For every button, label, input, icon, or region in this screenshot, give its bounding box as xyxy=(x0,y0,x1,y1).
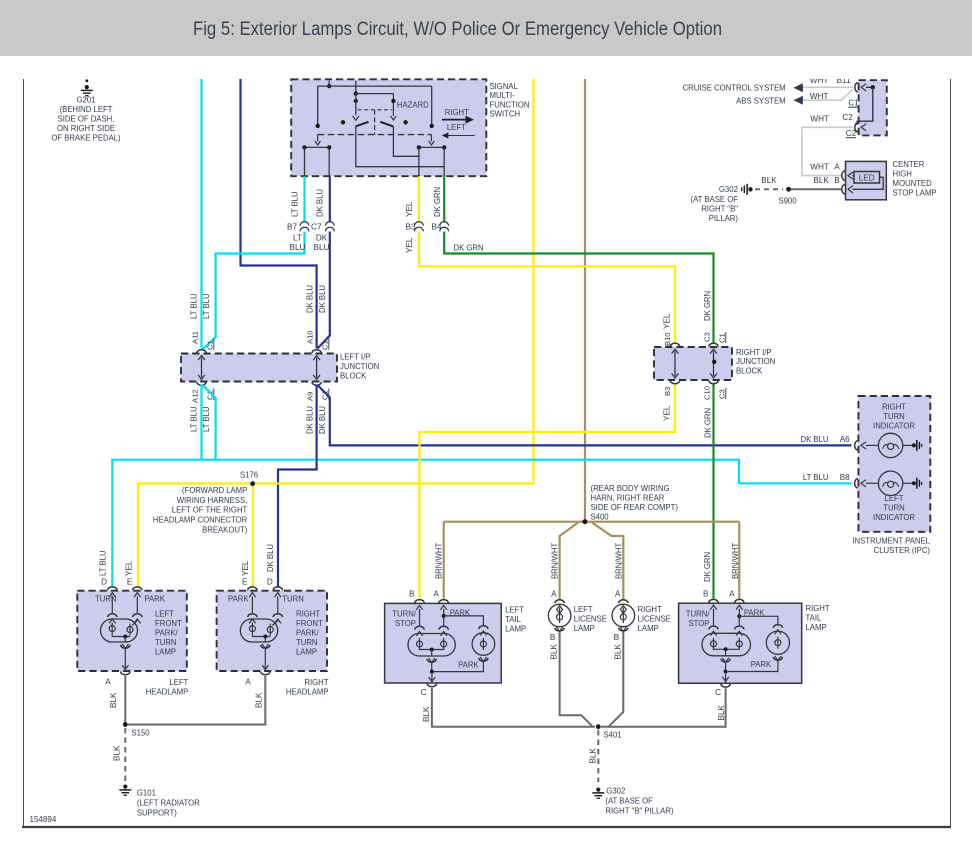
label LT BLU B8 xyxy=(803,473,850,482)
right front bulb bottom terminal xyxy=(261,644,270,665)
label DK GRN above C3 xyxy=(703,291,712,321)
wire YEL park feed from top xyxy=(532,79,534,484)
wire LT BLU A12 straight drop xyxy=(200,385,202,460)
junction block path C3-C10 xyxy=(710,349,717,378)
top right box internal wire xyxy=(857,85,875,125)
label forward lamp harness xyxy=(153,486,248,534)
pin E right front lamp xyxy=(248,587,257,597)
svg-text:JUNCTION: JUNCTION xyxy=(736,357,775,366)
wire DK GRN switch output xyxy=(444,176,713,342)
svg-text:WHT: WHT xyxy=(810,92,829,101)
pin A right tail xyxy=(735,599,744,609)
switch output stub B4 xyxy=(443,147,445,176)
label BRN-WHT right license xyxy=(615,543,624,579)
svg-text:A: A xyxy=(729,590,735,599)
right front park/turn lamp box xyxy=(217,591,327,671)
label A11 pin xyxy=(190,331,199,344)
pin B right tail xyxy=(709,599,718,609)
label A left front xyxy=(105,678,111,687)
svg-text:TURN: TURN xyxy=(883,504,905,513)
svg-text:C7: C7 xyxy=(311,223,322,232)
wire WHT C2 to stop lamp xyxy=(802,127,853,175)
svg-text:LAMP: LAMP xyxy=(505,625,527,634)
label PARK right tail top xyxy=(744,609,765,618)
svg-text:C2: C2 xyxy=(842,113,853,122)
svg-text:A9: A9 xyxy=(305,392,314,401)
switch hazard feed right xyxy=(391,94,397,120)
switch linkage row dashed xyxy=(318,134,432,136)
right tail park bulb xyxy=(728,625,790,672)
switch output arrow left xyxy=(315,135,321,145)
right tail bulb bottom terminal xyxy=(721,658,730,677)
svg-text:BREAKOUT): BREAKOUT) xyxy=(202,525,247,534)
svg-text:YEL: YEL xyxy=(663,405,672,421)
svg-text:RIGHT "B": RIGHT "B" xyxy=(701,205,738,214)
label DK BLU below C7 xyxy=(314,234,330,253)
svg-text:BLOCK: BLOCK xyxy=(736,367,763,376)
svg-text:B: B xyxy=(834,176,840,185)
label CENTER HIGH MOUNTED STOP LAMP xyxy=(893,160,938,198)
label YEL at left front lamp xyxy=(125,560,134,576)
label C right tail xyxy=(715,688,721,697)
svg-text:LT: LT xyxy=(293,234,302,243)
svg-text:A12: A12 xyxy=(190,389,199,403)
pin A12 xyxy=(197,382,206,385)
svg-text:B3: B3 xyxy=(405,223,415,232)
label DK BLU at right front lamp xyxy=(266,544,275,572)
svg-text:B8: B8 xyxy=(840,473,850,482)
svg-text:YEL: YEL xyxy=(405,237,414,253)
svg-text:A6: A6 xyxy=(840,435,850,444)
svg-text:FRONT: FRONT xyxy=(296,619,323,628)
svg-text:LEFT: LEFT xyxy=(155,610,174,619)
wire BLK left front lamp xyxy=(124,676,126,725)
pin C10 xyxy=(709,380,718,383)
label PARK left tail bottom xyxy=(458,661,479,670)
svg-text:LICENSE: LICENSE xyxy=(638,615,672,624)
left front park/turn lamp box xyxy=(77,591,187,671)
svg-text:A: A xyxy=(615,590,621,599)
label DK BLU pair above A10 xyxy=(306,285,328,313)
svg-text:WHT: WHT xyxy=(810,163,829,172)
pin C3 xyxy=(709,343,718,346)
wire DK BLU switch output xyxy=(318,176,330,348)
svg-text:PARK: PARK xyxy=(228,595,249,604)
svg-text:DK BLU: DK BLU xyxy=(318,406,327,434)
svg-text:A10: A10 xyxy=(305,330,314,344)
svg-text:RIGHT: RIGHT xyxy=(882,403,906,412)
pin D right front lamp xyxy=(273,587,282,597)
svg-text:TURN: TURN xyxy=(883,412,905,421)
svg-text:(AT BASE OF: (AT BASE OF xyxy=(605,797,653,806)
label C1 at A11 xyxy=(206,339,215,351)
svg-text:BLOCK: BLOCK xyxy=(340,371,367,380)
wire WHT to cruise control xyxy=(803,86,853,88)
svg-text:LT BLU: LT BLU xyxy=(202,406,211,432)
splice S150 xyxy=(123,722,150,737)
svg-text:STOP: STOP xyxy=(689,619,710,628)
svg-text:PARK: PARK xyxy=(144,595,165,604)
junction block path A11-A12 xyxy=(198,356,205,380)
wire BLK dashed to G101 xyxy=(124,728,126,783)
label PARK right front xyxy=(228,595,249,604)
label LEFT I/P JUNCTION BLOCK xyxy=(340,353,379,381)
svg-text:BLK: BLK xyxy=(813,176,829,185)
label WHT B11 clipped xyxy=(810,76,851,85)
label G302 location xyxy=(605,787,673,816)
label BLK B xyxy=(813,176,840,185)
svg-text:C1: C1 xyxy=(718,333,727,343)
splice S900 xyxy=(778,187,797,206)
svg-text:BLK: BLK xyxy=(550,643,559,659)
label ABS SYSTEM xyxy=(736,96,803,106)
svg-text:YEL: YEL xyxy=(241,560,250,576)
label BRN-WHT right tail xyxy=(731,543,740,579)
label LED xyxy=(859,174,875,183)
svg-text:SWITCH: SWITCH xyxy=(490,110,521,119)
svg-text:CRUISE CONTROL SYSTEM: CRUISE CONTROL SYSTEM xyxy=(683,84,786,93)
right front bulb xyxy=(240,597,282,643)
pin C2 xyxy=(855,123,866,132)
svg-text:LEFT: LEFT xyxy=(574,605,593,614)
label RIGHT TAIL LAMP xyxy=(806,604,830,632)
label LT BLU pair above A11 xyxy=(190,293,211,319)
label HAZARD xyxy=(397,101,429,110)
label YEL below B3 block xyxy=(663,405,672,421)
label C left tail xyxy=(421,688,427,697)
svg-text:E: E xyxy=(242,578,248,587)
svg-text:DK BLU: DK BLU xyxy=(318,285,327,313)
switch output stub C7 xyxy=(328,147,330,176)
wire LT BLU feed from top to A11 xyxy=(200,79,202,349)
connector B3 xyxy=(405,222,423,232)
label BLK at G101 xyxy=(113,745,122,761)
svg-text:LT BLU: LT BLU xyxy=(291,191,300,217)
pin D left front lamp xyxy=(108,587,117,597)
label WHT abs row xyxy=(810,92,829,101)
svg-text:SUPPORT): SUPPORT) xyxy=(137,809,177,818)
svg-text:PARK/: PARK/ xyxy=(155,629,178,638)
svg-text:(LEFT RADIATOR: (LEFT RADIATOR xyxy=(137,799,200,808)
switch moving contact left xyxy=(356,122,369,127)
label A9 pin xyxy=(305,392,314,401)
label E pin left front xyxy=(127,578,133,587)
svg-text:RIGHT: RIGHT xyxy=(445,108,469,117)
label LEFT with arrow xyxy=(442,123,475,139)
switch output bus left xyxy=(302,145,331,149)
svg-text:D: D xyxy=(101,578,107,587)
svg-text:E: E xyxy=(127,578,133,587)
svg-text:LEFT I/P: LEFT I/P xyxy=(340,353,371,362)
label LEFT LICENSE LAMP xyxy=(574,605,608,633)
svg-text:LAMP: LAMP xyxy=(296,648,318,657)
svg-text:BRN/WHT: BRN/WHT xyxy=(731,543,740,579)
svg-text:S176: S176 xyxy=(240,471,259,480)
svg-text:HARN, RIGHT REAR: HARN, RIGHT REAR xyxy=(591,494,665,503)
wire BLK right tail to S401 xyxy=(601,688,726,726)
pin A stop lamp xyxy=(842,171,854,180)
svg-text:LT BLU: LT BLU xyxy=(803,473,829,482)
junction block path B10-B3 xyxy=(672,349,679,378)
ground right turn indicator xyxy=(912,440,922,451)
svg-text:A: A xyxy=(245,678,251,687)
svg-text:PARK/: PARK/ xyxy=(296,629,319,638)
svg-text:YEL: YEL xyxy=(125,560,134,576)
svg-text:DK GRN: DK GRN xyxy=(454,244,484,253)
svg-text:(AT BASE OF: (AT BASE OF xyxy=(691,195,739,204)
svg-text:STOP: STOP xyxy=(395,619,416,628)
svg-text:B: B xyxy=(409,590,415,599)
left license lamp xyxy=(548,600,571,632)
splice S400 xyxy=(444,519,740,524)
svg-text:SIDE OF DASH,: SIDE OF DASH, xyxy=(58,115,115,124)
svg-text:TURN: TURN xyxy=(95,595,117,604)
connector C7 xyxy=(311,222,334,232)
pin A9 xyxy=(312,382,321,385)
left front bulb bottom terminal xyxy=(121,644,130,665)
svg-text:TAIL: TAIL xyxy=(505,615,521,624)
svg-text:DK BLU: DK BLU xyxy=(306,285,315,313)
svg-text:C10: C10 xyxy=(703,386,712,400)
label LT BLU above B7 xyxy=(291,191,300,217)
svg-text:DK GRN: DK GRN xyxy=(703,291,712,321)
ground G302 xyxy=(592,788,604,799)
svg-text:BLK: BLK xyxy=(254,692,263,708)
label B left license xyxy=(550,633,556,642)
label C1 at A9 xyxy=(321,389,330,401)
label YEL at right front lamp xyxy=(241,560,250,576)
svg-text:BLU: BLU xyxy=(290,243,306,252)
svg-text:WIRING HARNESS,: WIRING HARNESS, xyxy=(177,496,248,505)
switch internal top bus xyxy=(318,85,432,87)
frame border bottom xyxy=(22,826,951,828)
left tail park bulb xyxy=(434,626,495,672)
label D pin right front xyxy=(267,578,273,587)
pin A right front lamp xyxy=(261,665,270,675)
label B pin right tail xyxy=(703,590,709,599)
wire LT BLU horizontal run xyxy=(112,460,851,587)
label BLK dashed upper xyxy=(761,176,777,185)
label PARK left front xyxy=(144,595,165,604)
pin B left tail xyxy=(415,600,424,610)
svg-text:LT BLU: LT BLU xyxy=(98,550,107,576)
label LT BLU below B7 xyxy=(290,234,306,253)
svg-text:LAMP: LAMP xyxy=(806,623,828,632)
wire BRN-WHT to right tail xyxy=(738,522,740,599)
svg-text:ABS SYSTEM: ABS SYSTEM xyxy=(736,97,786,106)
label B3 pin xyxy=(663,387,672,396)
svg-text:LAMP: LAMP xyxy=(638,624,660,633)
label G302 upper location xyxy=(691,185,739,223)
label BLK at G302 xyxy=(588,747,597,763)
svg-text:LEFT: LEFT xyxy=(169,678,188,687)
switch output stub B3 xyxy=(418,147,420,176)
switch right-turn route xyxy=(393,126,419,156)
svg-text:B: B xyxy=(550,633,556,642)
frame border left xyxy=(23,79,25,827)
pin B10 xyxy=(670,343,679,346)
pin C left tail xyxy=(427,677,436,687)
svg-text:Fig 5: Exterior Lamps Circuit,: Fig 5: Exterior Lamps Circuit, W/O Polic… xyxy=(193,19,722,40)
label RIGHT TURN INDICATOR xyxy=(873,403,915,431)
svg-text:RIGHT I/P: RIGHT I/P xyxy=(736,348,772,357)
label RIGHT I/P JUNCTION BLOCK xyxy=(736,348,775,376)
center high mounted stop lamp box xyxy=(846,161,887,199)
wire DK BLU feed from top xyxy=(241,79,317,349)
svg-text:WHT: WHT xyxy=(810,115,829,124)
label LEFT HEADLAMP xyxy=(146,678,189,697)
svg-text:DK GRN: DK GRN xyxy=(704,408,713,438)
svg-text:HEADLAMP CONNECTOR: HEADLAMP CONNECTOR xyxy=(153,516,247,525)
left tail park branch xyxy=(442,609,484,626)
label E pin right front xyxy=(242,578,248,587)
svg-text:G302: G302 xyxy=(606,787,625,796)
label C1 underlined xyxy=(848,99,859,108)
label BLK right license xyxy=(613,643,622,659)
svg-text:BLK: BLK xyxy=(717,704,726,720)
instrument panel cluster box xyxy=(858,396,930,532)
wire LT BLU switch output xyxy=(203,176,305,349)
svg-text:BRN/WHT: BRN/WHT xyxy=(615,543,624,579)
wire BLK dashed to G302 upper xyxy=(755,188,783,190)
ground G201 xyxy=(81,80,93,96)
svg-text:DK: DK xyxy=(316,234,328,243)
svg-text:TAIL: TAIL xyxy=(806,614,822,623)
svg-text:TURN: TURN xyxy=(296,638,318,647)
svg-text:C: C xyxy=(421,688,427,697)
label PARK left tail top xyxy=(450,609,471,618)
label G101 location xyxy=(137,789,200,818)
svg-text:MOUNTED: MOUNTED xyxy=(893,179,932,188)
switch internal left drop xyxy=(316,86,320,128)
wire BRN-WHT to left license xyxy=(560,523,578,600)
pin A11 xyxy=(197,350,206,353)
svg-text:LEFT: LEFT xyxy=(505,606,524,615)
switch moving contact right xyxy=(380,122,393,127)
wire BRN-WHT to right license xyxy=(592,523,623,600)
svg-text:RIGHT "B" PILLAR): RIGHT "B" PILLAR) xyxy=(605,807,673,816)
pin A6 xyxy=(855,441,866,450)
svg-text:BLK: BLK xyxy=(113,745,122,761)
switch hazard feed left xyxy=(353,94,359,121)
svg-text:DK BLU: DK BLU xyxy=(801,435,829,444)
svg-text:HAZARD: HAZARD xyxy=(397,101,429,110)
svg-text:LT BLU: LT BLU xyxy=(190,406,199,432)
label A12 pin xyxy=(190,389,199,403)
pin B11 xyxy=(855,83,866,92)
label RIGHT LICENSE LAMP xyxy=(638,605,672,633)
switch internal centre drop xyxy=(354,81,358,96)
svg-text:FRONT: FRONT xyxy=(155,619,182,628)
label INSTRUMENT PANEL CLUSTER xyxy=(852,537,930,556)
svg-text:B4: B4 xyxy=(431,223,441,232)
switch internal second bus xyxy=(356,93,394,95)
svg-text:C: C xyxy=(715,688,721,697)
svg-text:TURN/: TURN/ xyxy=(392,610,416,619)
label DK GRN at right tail xyxy=(703,552,712,582)
svg-text:DK BLU: DK BLU xyxy=(316,189,325,217)
drawing number 154894 xyxy=(30,814,57,824)
svg-text:YEL: YEL xyxy=(663,313,672,329)
label LEFT FRONT PARK TURN LAMP xyxy=(155,610,182,657)
wire BRN-WHT feed from top to S400 xyxy=(584,79,586,522)
right tail dual bulb xyxy=(702,609,751,656)
label rear body harness S400 xyxy=(591,484,679,522)
svg-text:CENTER: CENTER xyxy=(893,160,925,169)
svg-text:(FORWARD LAMP: (FORWARD LAMP xyxy=(182,486,248,495)
svg-text:BLK: BLK xyxy=(422,706,431,722)
pin A10 xyxy=(312,350,321,353)
svg-text:LEFT OF THE RIGHT: LEFT OF THE RIGHT xyxy=(172,506,248,515)
svg-text:C1: C1 xyxy=(848,99,859,108)
top right connector box xyxy=(859,80,887,135)
left tail lamp box xyxy=(385,603,502,683)
label DK GRN below C10 xyxy=(704,408,713,438)
svg-text:LT BLU: LT BLU xyxy=(202,293,211,319)
svg-text:HIGH: HIGH xyxy=(893,169,912,178)
label C2 underlined xyxy=(846,129,857,138)
svg-text:BRN/WHT: BRN/WHT xyxy=(551,543,560,579)
label C3 pin top xyxy=(703,332,712,342)
label DK BLU A6 xyxy=(801,435,851,444)
svg-text:B3: B3 xyxy=(663,387,672,396)
label RIGHT with arrow xyxy=(442,108,474,124)
ground G101 xyxy=(119,785,131,796)
svg-text:YEL: YEL xyxy=(405,201,414,217)
svg-text:S150: S150 xyxy=(132,729,151,738)
svg-text:G302: G302 xyxy=(719,185,738,194)
pin B8 xyxy=(855,479,866,488)
label WHT C2 xyxy=(810,113,853,124)
svg-text:G201: G201 xyxy=(77,96,96,105)
switch contact dot left xyxy=(341,120,345,124)
wire BLK left tail to S401 xyxy=(432,688,595,727)
label BLK left front xyxy=(109,692,118,708)
connector B7 xyxy=(287,222,309,232)
label DK GRN above B4 xyxy=(433,187,442,217)
label BLK left license xyxy=(550,643,559,659)
svg-text:INDICATOR: INDICATOR xyxy=(873,422,915,431)
svg-text:S900: S900 xyxy=(778,197,797,206)
label A10 pin xyxy=(305,330,314,344)
switch left-turn route xyxy=(356,126,444,166)
label C3 at C10 xyxy=(718,388,727,399)
svg-text:RIGHT: RIGHT xyxy=(296,610,320,619)
junction block path A10-A9 xyxy=(313,356,320,380)
label TURN right front xyxy=(282,595,304,604)
svg-text:HEADLAMP: HEADLAMP xyxy=(286,688,329,697)
label PARK right tail bottom xyxy=(751,660,772,669)
svg-text:S401: S401 xyxy=(604,731,623,740)
label A left license xyxy=(551,590,557,599)
wire YEL park horizontal xyxy=(138,484,534,587)
svg-text:BLU: BLU xyxy=(314,243,330,252)
label A pin left tail xyxy=(434,590,440,599)
wire DK BLU A9 to IPC A6 xyxy=(318,385,852,445)
svg-text:PARK: PARK xyxy=(458,661,479,670)
pin A left tail xyxy=(439,600,448,610)
pin B3 xyxy=(670,380,679,383)
wire YEL switch output xyxy=(419,176,675,342)
svg-text:PARK: PARK xyxy=(751,660,772,669)
ground G302 upper xyxy=(742,184,753,195)
svg-text:C2: C2 xyxy=(846,129,857,138)
right tail park branch xyxy=(737,609,778,625)
label G201 location xyxy=(51,96,121,143)
svg-text:MULTI-: MULTI- xyxy=(490,91,516,100)
label YEL below B3 xyxy=(405,237,414,253)
label RIGHT HEADLAMP xyxy=(286,678,329,697)
